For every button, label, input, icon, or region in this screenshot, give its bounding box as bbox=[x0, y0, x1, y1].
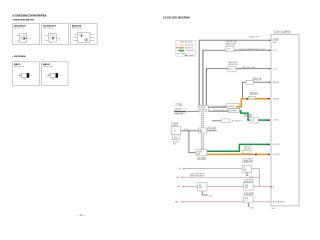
svg-text:SENSOR: SENSOR bbox=[228, 64, 239, 66]
svg-text:CTL 2: CTL 2 bbox=[273, 69, 277, 71]
svg-text:IC201: IC201 bbox=[209, 195, 213, 197]
svg-text:REMOTE: REMOTE bbox=[273, 82, 279, 84]
svg-text:MIC: MIC bbox=[177, 186, 180, 188]
svg-text:BUFFER R: BUFFER R bbox=[229, 111, 236, 113]
svg-text:TO CD/TAPE: TO CD/TAPE bbox=[242, 158, 253, 161]
svg-text:R-CH: R-CH bbox=[244, 114, 252, 116]
svg-text:POWER: POWER bbox=[197, 151, 202, 153]
svg-text:14.3 BLOCK DIAGRAM: 14.3 BLOCK DIAGRAM bbox=[163, 15, 190, 19]
svg-text:1N41: 1N41 bbox=[52, 79, 55, 81]
svg-text:1N41: 1N41 bbox=[23, 79, 26, 81]
svg-text:LINE OUT: LINE OUT bbox=[244, 147, 252, 149]
svg-text:TAPE/AUX: TAPE/AUX bbox=[250, 91, 259, 94]
svg-text:L-CH line: L-CH line bbox=[185, 50, 194, 52]
svg-text:Signal: Signal bbox=[189, 55, 195, 57]
svg-text:60Hz: 60Hz bbox=[173, 143, 177, 145]
svg-text:SELECT: SELECT bbox=[250, 94, 259, 96]
svg-text:R-CH line: R-CH line bbox=[185, 47, 194, 49]
svg-text:2SC4081TLR: 2SC4081TLR bbox=[43, 24, 57, 27]
svg-text:L-CH IN: L-CH IN bbox=[273, 120, 278, 122]
svg-text:IC101: IC101 bbox=[249, 176, 253, 178]
svg-text:Q-506: Q-506 bbox=[227, 49, 231, 51]
svg-text:CD: CD bbox=[243, 167, 245, 169]
svg-text:CAUTION FOR: CAUTION FOR bbox=[190, 173, 206, 176]
svg-text:UNIT: UNIT bbox=[242, 162, 253, 164]
svg-text:• TRANSISTORS AND FETS: • TRANSISTORS AND FETS bbox=[12, 18, 34, 21]
svg-text:TAPE REC: TAPE REC bbox=[228, 61, 239, 64]
svg-text:4-16 OHM: 4-16 OHM bbox=[175, 109, 181, 111]
svg-text:PRE: PRE bbox=[245, 185, 248, 187]
svg-text:AC 120V: AC 120V bbox=[173, 141, 179, 144]
svg-text:— 14 —: — 14 — bbox=[77, 214, 86, 217]
svg-text:DC-DC CONV: DC-DC CONV bbox=[244, 193, 254, 195]
svg-text:BA10324: BA10324 bbox=[72, 24, 82, 27]
svg-text:CONTROL TRANSMITTER OUTPUT: CONTROL TRANSMITTER OUTPUT bbox=[239, 48, 266, 51]
svg-text:CD sound: CD sound bbox=[185, 45, 194, 47]
svg-text:Q-510: Q-510 bbox=[229, 69, 233, 71]
svg-text:TO THE CD CHANGER: TO THE CD CHANGER bbox=[274, 30, 292, 33]
svg-text:R-CH: R-CH bbox=[176, 177, 179, 179]
svg-text:R-CH OUT: R-CH OUT bbox=[273, 144, 280, 146]
svg-text:R-CH IN: R-CH IN bbox=[273, 98, 279, 100]
svg-text:REG: REG bbox=[245, 198, 248, 200]
svg-text:IC301: IC301 bbox=[250, 208, 254, 210]
svg-text:MA165: MA165 bbox=[43, 63, 51, 66]
svg-text:CLEAR BUTTON: CLEAR BUTTON bbox=[249, 36, 260, 39]
svg-text:SENSOR: SENSOR bbox=[252, 80, 262, 82]
svg-text:GND: GND bbox=[175, 201, 178, 203]
svg-text:L-CH OUT: L-CH OUT bbox=[273, 154, 280, 156]
svg-text:OPTION CONNECTION: OPTION CONNECTION bbox=[274, 33, 291, 35]
svg-text:L-CH: L-CH bbox=[178, 168, 181, 170]
svg-text:GND: GND bbox=[271, 208, 275, 210]
svg-text:IC: IC bbox=[245, 200, 246, 202]
svg-text:CTL 1: CTL 1 bbox=[273, 50, 277, 52]
svg-text:L-CH SOUND SIGNAL: L-CH SOUND SIGNAL bbox=[209, 105, 226, 108]
svg-text:CD PLAYER: CD PLAYER bbox=[244, 179, 255, 182]
svg-text:SELECT: SELECT bbox=[244, 149, 252, 151]
svg-text:B: B bbox=[273, 187, 274, 189]
svg-text:DECK CONT: DECK CONT bbox=[226, 43, 237, 45]
svg-text:AC IN: AC IN bbox=[184, 128, 188, 131]
svg-text:14.2 SEMICONDUCTOR INFORMATION: 14.2 SEMICONDUCTOR INFORMATION bbox=[12, 13, 46, 17]
svg-text:SOUND: SOUND bbox=[244, 116, 253, 118]
svg-text:POWER: POWER bbox=[171, 123, 179, 125]
svg-text:RECORD LINE: RECORD LINE bbox=[242, 67, 255, 69]
svg-text:2SB1424TLR: 2SB1424TLR bbox=[14, 24, 27, 27]
svg-text:P.T: P.T bbox=[174, 131, 176, 133]
svg-text:SYSTEM: SYSTEM bbox=[199, 107, 206, 109]
svg-text:MIC: MIC bbox=[199, 185, 202, 187]
svg-text:CONTROL: CONTROL bbox=[199, 109, 206, 111]
svg-text:R-CH SOUND SIG: R-CH SOUND SIG bbox=[214, 110, 229, 112]
svg-text:(+10V): (+10V) bbox=[175, 105, 183, 107]
svg-text:AC SELECT: AC SELECT bbox=[232, 120, 242, 123]
svg-text:• DIODES: • DIODES bbox=[12, 56, 27, 58]
svg-text:BUFFER L: BUFFER L bbox=[228, 106, 235, 108]
svg-text:MA111: MA111 bbox=[14, 63, 21, 66]
svg-text:VOL: VOL bbox=[175, 103, 183, 105]
